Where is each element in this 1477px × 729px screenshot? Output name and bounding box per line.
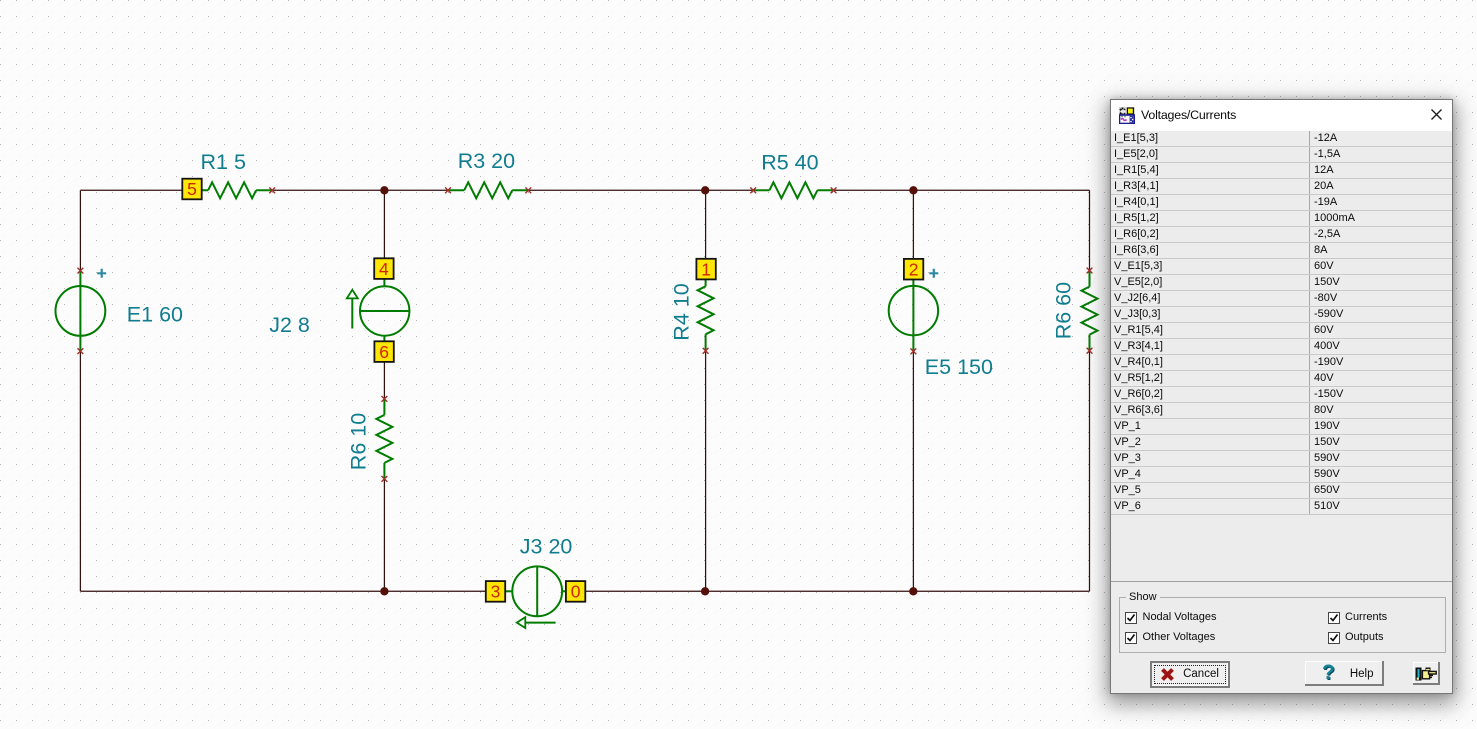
E5 plus sign: [929, 269, 938, 278]
terminal x-mark E1 top: [78, 268, 84, 274]
wire bottom ground rail right of J3: [585, 590, 1089, 592]
svg-text:R6 60: R6 60: [1052, 282, 1076, 339]
resistor R1: [202, 182, 272, 198]
terminal x-mark R5 left: [750, 187, 756, 193]
svg-text:J2 8: J2 8: [269, 313, 310, 337]
wire top net segment 3 (R3 to R5): [528, 189, 753, 191]
E1 plus sign: [97, 269, 106, 278]
node 5 label box: [182, 179, 201, 200]
node 0 label box: [566, 581, 585, 602]
hand button: [1413, 662, 1440, 686]
wire left branch above E1: [79, 190, 81, 270]
Show group box: [1119, 597, 1446, 653]
J2 direction arrow (up): [347, 290, 358, 329]
wire below E5 to ground rail: [912, 351, 914, 591]
resistor R5: [753, 182, 833, 198]
resistor R6 10: [376, 399, 392, 479]
svg-text:4: 4: [379, 259, 389, 279]
svg-text:R5 40: R5 40: [761, 150, 818, 174]
current source J2: [360, 279, 409, 342]
wire top net segment 4 (R5 to right corner): [834, 189, 1090, 191]
node 4 label box: [374, 258, 393, 279]
terminal x-mark R5 right: [831, 187, 837, 193]
wire branch node1 from top rail to R4: [705, 190, 707, 259]
junction dot 4: [380, 587, 388, 595]
terminal x-mark R3 left: [445, 187, 451, 193]
wire branch node4 from top rail to J2: [383, 190, 385, 258]
svg-text:R3 20: R3 20: [458, 149, 515, 173]
node 1 label box: [696, 259, 715, 280]
junction dot 1: [380, 186, 388, 194]
svg-text:R6 10: R6 10: [347, 413, 371, 470]
svg-text:1: 1: [701, 259, 711, 279]
wire right branch above R6 60: [1089, 190, 1091, 270]
wire top net segment 1 (to node 5): [80, 189, 182, 191]
voltage source E5: [889, 279, 938, 351]
Cancel button: [1150, 661, 1230, 688]
terminal x-mark E5 bottom: [911, 348, 917, 354]
terminal x-mark R4 bottom: [703, 348, 709, 354]
terminal x-mark R6 60 top: [1087, 268, 1093, 274]
resistor R4: [698, 279, 714, 350]
terminal x-mark R6 10 bottom: [382, 476, 388, 482]
wire between J2 node6 and R6 10: [383, 362, 385, 399]
Voltages/Currents dialog window: [1110, 99, 1453, 694]
junction dot 2: [701, 186, 709, 194]
current source J3: [505, 566, 565, 616]
terminal x-mark E1 bottom: [78, 348, 84, 354]
terminal x-mark R6 10 top: [382, 396, 388, 402]
svg-text:R4 10: R4 10: [669, 283, 693, 340]
svg-text:R1 5: R1 5: [201, 150, 246, 174]
junction dot 3: [909, 186, 917, 194]
wire left branch below E1: [79, 351, 81, 591]
wire top net segment 2 (R1 to R3): [272, 189, 448, 191]
terminal x-mark R1 right: [269, 187, 275, 193]
J3 direction arrow (left): [517, 617, 556, 628]
svg-text:J3 20: J3 20: [520, 534, 573, 558]
svg-text:2: 2: [909, 259, 919, 279]
svg-text:5: 5: [187, 179, 197, 199]
Help button: [1305, 661, 1384, 686]
junction dot 6: [909, 587, 917, 595]
node 2 label box: [904, 259, 923, 280]
wire branch node2 from top rail to E5: [912, 190, 914, 259]
resistor R3: [448, 182, 528, 198]
svg-text:6: 6: [379, 342, 389, 362]
svg-text:E5 150: E5 150: [925, 355, 993, 379]
wire below R6 10 to ground rail: [383, 479, 385, 591]
junction dot 5: [701, 587, 709, 595]
svg-text:3: 3: [491, 582, 501, 602]
node 6 label box: [374, 341, 393, 362]
wire below R4 to ground rail: [705, 351, 707, 592]
resistor R6 60: [1082, 271, 1098, 351]
svg-text:E1 60: E1 60: [127, 303, 183, 327]
terminal x-mark R6 60 bottom: [1087, 348, 1093, 354]
svg-text:0: 0: [571, 582, 581, 602]
voltage source E1: [56, 271, 106, 352]
wire bottom ground rail left of J3: [80, 590, 485, 592]
terminal x-mark R3 right: [525, 187, 531, 193]
node 3 label box: [486, 581, 505, 602]
wire right branch below R6 60: [1089, 351, 1091, 592]
